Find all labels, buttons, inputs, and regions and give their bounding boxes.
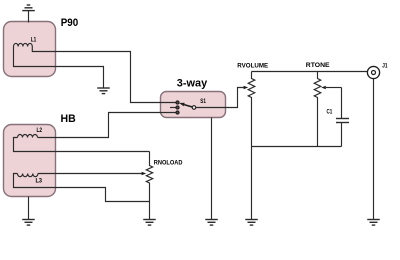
svg-text:S1: S1 <box>200 98 206 105</box>
svg-text:C1: C1 <box>327 109 333 116</box>
svg-text:3-way: 3-way <box>177 78 208 90</box>
svg-text:L3: L3 <box>36 178 43 185</box>
svg-text:HB: HB <box>61 113 76 125</box>
svg-text:RTONE: RTONE <box>306 62 330 69</box>
svg-text:L1: L1 <box>31 37 37 44</box>
svg-text:RNOLOAD: RNOLOAD <box>154 160 183 167</box>
svg-text:L2: L2 <box>37 127 43 134</box>
svg-text:P90: P90 <box>61 17 78 29</box>
svg-text:RVOLUME: RVOLUME <box>237 63 268 70</box>
svg-text:J1: J1 <box>382 62 387 69</box>
